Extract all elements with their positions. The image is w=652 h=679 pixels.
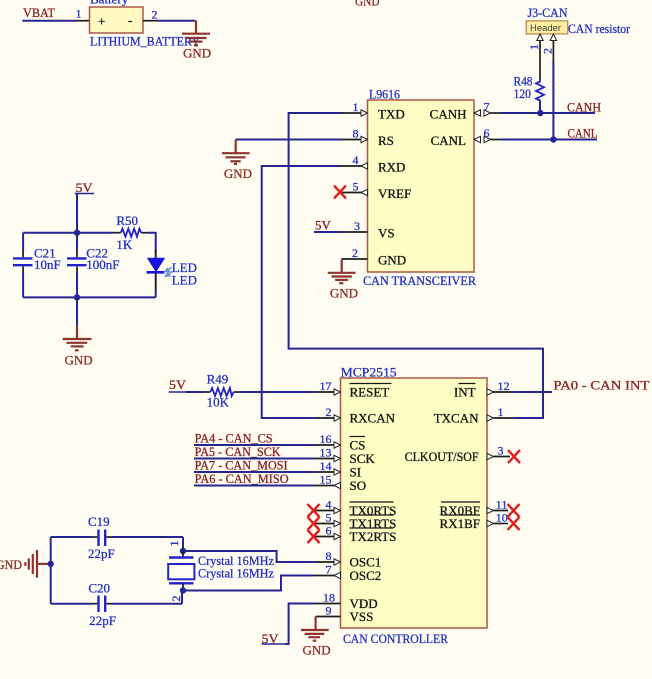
svg-text:GND: GND bbox=[330, 286, 358, 301]
wire RXD net: pin4 left, down to RXCAN bbox=[262, 166, 342, 418]
pin name SO bbox=[350, 478, 367, 493]
wire CAN_MOSI bbox=[194, 471, 314, 473]
pin 1 TXD stub bbox=[342, 110, 368, 116]
capacitor C21 (vertical) bbox=[13, 233, 33, 298]
ground symbol (battery) bbox=[182, 21, 210, 46]
wire C20 to crystal pin 2 bbox=[181, 591, 183, 604]
pin number 13 bbox=[320, 446, 332, 460]
pin 5 VREF stub bbox=[342, 189, 368, 195]
pin 6 TX2RTS stub with X bbox=[314, 533, 341, 539]
svg-text:TXCAN: TXCAN bbox=[434, 411, 479, 426]
junction bottom rail bbox=[74, 294, 80, 300]
svg-text:1: 1 bbox=[167, 541, 181, 547]
pin 3 CLKOUT/SOF stub with X bbox=[487, 453, 510, 459]
svg-text:PA0 - CAN INT: PA0 - CAN INT bbox=[553, 378, 649, 393]
wire RS to ground bbox=[236, 139, 342, 141]
pin number 7 (OSC2) bbox=[326, 563, 332, 577]
wire crystal pin1 to OSC1 bbox=[183, 551, 314, 562]
pin number 6 bbox=[326, 524, 332, 538]
junction crystal pin 1 bbox=[180, 548, 186, 554]
IC U? MCP2515 body bbox=[341, 378, 488, 628]
svg-text:GND: GND bbox=[355, 0, 380, 9]
junction 5V rail bbox=[74, 230, 80, 236]
comment CAN resistor bbox=[568, 21, 631, 36]
value 22pF (C20) bbox=[89, 613, 116, 628]
pin number 4 (RXD) bbox=[353, 153, 359, 167]
designator Battery (clipped at top) bbox=[90, 0, 129, 7]
wire bottom rail bbox=[23, 296, 156, 298]
wire 5V to VS pin bbox=[314, 231, 342, 233]
pin number 11 bbox=[496, 498, 508, 512]
pin number 6 (CANL) bbox=[484, 126, 490, 140]
svg-text:RS: RS bbox=[378, 133, 394, 148]
battery plus mark bbox=[98, 14, 105, 29]
pin 15 SO stub bbox=[314, 482, 341, 488]
pin name CS with overline bbox=[350, 437, 366, 453]
pin number 5 bbox=[326, 511, 332, 525]
pin name SCK bbox=[350, 451, 376, 466]
pin 1 of J3 (vertical) bbox=[539, 41, 541, 80]
svg-text:5V: 5V bbox=[315, 218, 332, 233]
no-connect X on VREF bbox=[334, 186, 346, 199]
pin name VS bbox=[378, 226, 395, 241]
connector J3 comment Header bbox=[530, 23, 561, 34]
pin number 3 (VS) bbox=[354, 219, 360, 233]
pin 2 RXCAN stub bbox=[314, 415, 341, 421]
junction crystal pin 2 bbox=[180, 587, 186, 593]
pin name RESET with overline bbox=[350, 384, 392, 400]
pin name RXD bbox=[378, 160, 405, 175]
pin 2 of J3 (vertical) bbox=[552, 41, 554, 63]
svg-text:Battery: Battery bbox=[90, 0, 129, 7]
wire top rail bbox=[23, 232, 113, 234]
pin name OSC2 bbox=[350, 568, 382, 583]
resistor R50 leads bbox=[113, 232, 148, 234]
power port 5V (R49) bbox=[169, 377, 187, 392]
svg-text:CAN CONTROLLER: CAN CONTROLLER bbox=[343, 631, 448, 646]
no-connect X on TX2RTS bbox=[308, 530, 320, 543]
designator R50 bbox=[116, 213, 138, 228]
pin number 4 bbox=[326, 498, 332, 512]
pin number 17 bbox=[320, 379, 332, 393]
svg-text:R50: R50 bbox=[116, 213, 138, 228]
pin 4 TX0RTS stub with X bbox=[314, 507, 341, 513]
svg-text:22pF: 22pF bbox=[88, 546, 115, 561]
value 120 bbox=[514, 86, 532, 101]
pin name RX0BF with overline bbox=[440, 502, 480, 518]
svg-text:18: 18 bbox=[323, 591, 335, 605]
svg-text:17: 17 bbox=[320, 379, 332, 393]
pin 7 OSC2 stub bbox=[314, 572, 341, 578]
pin 4 RXD stub bbox=[342, 163, 368, 169]
pin 17 RESET stub bbox=[314, 389, 341, 395]
svg-text:9: 9 bbox=[326, 604, 332, 618]
comment CAN TRANSCEIVER bbox=[363, 273, 476, 288]
svg-text:7: 7 bbox=[484, 100, 490, 114]
svg-text:RESET: RESET bbox=[350, 385, 390, 400]
svg-text:Crystal 16MHz: Crystal 16MHz bbox=[198, 566, 274, 581]
power port 5V (top left) bbox=[75, 180, 94, 195]
pin name GND bbox=[378, 253, 406, 268]
svg-text:1: 1 bbox=[498, 405, 504, 419]
svg-text:C20: C20 bbox=[88, 581, 110, 596]
pin number 2 (crystal, rotated) bbox=[169, 596, 183, 602]
svg-text:TX2RTS: TX2RTS bbox=[350, 529, 397, 544]
svg-text:11: 11 bbox=[496, 498, 508, 512]
op-amp/IC U? L9616 body bbox=[368, 100, 475, 272]
svg-text:CLKOUT/SOF: CLKOUT/SOF bbox=[405, 449, 479, 464]
svg-text:J3-CAN: J3-CAN bbox=[528, 5, 569, 20]
svg-text:10K: 10K bbox=[207, 395, 230, 410]
wire battery pin 2 to ground bbox=[158, 20, 196, 22]
svg-text:13: 13 bbox=[320, 446, 332, 460]
wire crystal gnd vertical bbox=[50, 537, 52, 604]
wire CAN_MISO bbox=[194, 485, 314, 487]
svg-text:16: 16 bbox=[320, 432, 332, 446]
svg-text:6: 6 bbox=[326, 524, 332, 538]
value 100nF bbox=[86, 257, 119, 272]
wire C19 to crystal pin 1 bbox=[182, 537, 184, 551]
power port 5V (VDD) bbox=[261, 631, 285, 646]
pin number 2 (RXCAN) bbox=[326, 405, 332, 419]
wire CANL bbox=[500, 139, 597, 141]
pin number 8 (OSC1) bbox=[326, 549, 332, 563]
wire crystal pin2 to OSC2 bbox=[183, 576, 314, 591]
pin 9 VSS stub bbox=[316, 616, 341, 618]
pin number 2 of J3 (rotated) bbox=[541, 48, 555, 54]
pin 2 of battery bbox=[143, 20, 158, 22]
svg-text:MCP2515: MCP2515 bbox=[341, 365, 397, 380]
svg-text:15: 15 bbox=[320, 473, 332, 487]
svg-text:8: 8 bbox=[353, 127, 359, 141]
pin 8 OSC1 stub bbox=[314, 559, 341, 565]
no-connect X on RX1BF bbox=[508, 517, 520, 530]
svg-text:12: 12 bbox=[498, 379, 510, 393]
value 1K bbox=[116, 237, 132, 252]
svg-text:GND: GND bbox=[183, 45, 211, 60]
pin 6 CANL stub (bidirectional) bbox=[474, 136, 500, 142]
svg-text:VREF: VREF bbox=[378, 186, 411, 201]
capacitor C22 (vertical) bbox=[67, 233, 87, 298]
pin 11 RX0BF stub with X bbox=[487, 507, 508, 513]
crystal Y? 16MHz bbox=[168, 551, 194, 591]
svg-text:GND: GND bbox=[65, 353, 93, 368]
ground label GND (battery) bbox=[183, 45, 211, 60]
pin number 18 bbox=[323, 591, 335, 605]
pin number 12 bbox=[498, 379, 510, 393]
svg-text:VSS: VSS bbox=[350, 609, 374, 624]
svg-text:3: 3 bbox=[354, 219, 360, 233]
designator L9616 bbox=[369, 87, 400, 102]
svg-text:GND: GND bbox=[224, 166, 252, 181]
svg-text:TXD: TXD bbox=[378, 107, 405, 122]
wire 5V up to VDD bbox=[285, 604, 314, 645]
pin name TXD bbox=[378, 107, 405, 122]
net label PA4 - CAN_CS bbox=[195, 431, 273, 446]
no-connect X on TX1RTS bbox=[308, 517, 320, 530]
pin number 9 bbox=[326, 604, 332, 618]
pin number 16 bbox=[320, 432, 332, 446]
comment Crystal 16MHz (2) bbox=[198, 566, 274, 581]
svg-text:INT: INT bbox=[454, 385, 476, 400]
capacitor C20 bbox=[51, 596, 182, 613]
svg-text:2: 2 bbox=[152, 8, 158, 22]
ground label GND (crystal, clipped left) bbox=[0, 557, 22, 572]
pin name OSC1 bbox=[350, 555, 382, 570]
ground symbol (RS) bbox=[222, 140, 250, 164]
svg-text:5V: 5V bbox=[169, 377, 187, 392]
junction on CANH bbox=[537, 110, 543, 116]
svg-text:CANL: CANL bbox=[568, 126, 598, 141]
ground label GND (VSS) bbox=[303, 643, 331, 658]
wire R48 to CANH junction bbox=[539, 102, 541, 113]
svg-text:4: 4 bbox=[353, 153, 359, 167]
svg-text:GND: GND bbox=[378, 253, 406, 268]
svg-text:CAN TRANSCEIVER: CAN TRANSCEIVER bbox=[363, 273, 476, 288]
junction crystal gnd bbox=[48, 561, 54, 567]
pin number 1 (TXCAN) bbox=[498, 405, 504, 419]
net label CANH bbox=[567, 100, 601, 115]
pin number 5 (VREF) bbox=[353, 180, 359, 194]
value 22pF (C19) bbox=[88, 546, 115, 561]
wire CANH bbox=[500, 112, 595, 114]
pin number 1 (battery) bbox=[76, 7, 82, 21]
resistor R50 bbox=[121, 229, 141, 237]
wire rail down to ground bbox=[76, 297, 78, 325]
pin name INT with overline bbox=[454, 384, 476, 400]
pin 13 SCK stub bbox=[314, 455, 341, 461]
svg-text:100nF: 100nF bbox=[86, 257, 119, 272]
svg-text:5: 5 bbox=[353, 180, 359, 194]
svg-text:CANH: CANH bbox=[430, 107, 467, 122]
comment LITHIUM_BATTERY bbox=[90, 34, 201, 49]
svg-text:C19: C19 bbox=[88, 514, 110, 529]
pin name RXCAN bbox=[350, 411, 396, 426]
svg-text:SO: SO bbox=[350, 478, 367, 493]
pin name TX2RTS with overline bbox=[350, 528, 397, 544]
pin name CLKOUT/SOF bbox=[405, 449, 479, 464]
pin 16 CS stub bbox=[314, 442, 341, 448]
comment LED bbox=[172, 273, 197, 288]
designator C20 bbox=[88, 581, 110, 596]
pin 12 INT stub bbox=[487, 389, 513, 395]
svg-text:2: 2 bbox=[326, 405, 332, 419]
net label CANL bbox=[568, 126, 598, 141]
svg-text:GND: GND bbox=[0, 557, 22, 572]
pin name TXCAN bbox=[434, 411, 479, 426]
pin name CANH bbox=[430, 107, 467, 122]
svg-text:RX1BF: RX1BF bbox=[440, 516, 480, 531]
pin 8 RS stub bbox=[342, 136, 368, 142]
diode LED D? bbox=[147, 250, 165, 297]
connector J3 body bbox=[526, 21, 567, 34]
pin name CANL bbox=[431, 133, 466, 148]
pin name RS bbox=[378, 133, 394, 148]
svg-text:2: 2 bbox=[169, 596, 183, 602]
pin number 2 (battery) bbox=[152, 8, 158, 22]
pin 5 TX1RTS stub with X bbox=[314, 520, 341, 526]
pin number 14 bbox=[320, 459, 332, 473]
value 10K bbox=[207, 395, 230, 410]
wire CAN_CS bbox=[194, 444, 314, 446]
wire VBAT to battery pin 1 bbox=[22, 20, 76, 22]
pin 14 SI stub bbox=[314, 469, 341, 475]
designator C21 bbox=[34, 246, 56, 261]
pin name TX1RTS with overline bbox=[350, 515, 397, 531]
svg-text:8: 8 bbox=[326, 549, 332, 563]
pin 1 TXCAN stub bbox=[487, 415, 513, 421]
net label VBAT bbox=[23, 5, 55, 20]
svg-text:VS: VS bbox=[378, 226, 395, 241]
svg-text:10nF: 10nF bbox=[34, 257, 61, 272]
LED light arrows bbox=[165, 267, 173, 276]
battery B? body bbox=[90, 7, 144, 33]
resistor R49 leads bbox=[203, 391, 241, 393]
svg-text:1: 1 bbox=[76, 7, 82, 21]
svg-text:1: 1 bbox=[353, 100, 359, 114]
pin number 8 (RS) bbox=[353, 127, 359, 141]
svg-text:Header: Header bbox=[530, 23, 561, 34]
comment CAN CONTROLLER bbox=[343, 631, 448, 646]
pin name VSS bbox=[350, 609, 374, 624]
svg-text:3: 3 bbox=[498, 444, 504, 458]
pin number 1 (TXD) bbox=[353, 100, 359, 114]
pin 7 CANH stub (bidirectional) bbox=[474, 110, 500, 116]
pin number 1 (crystal, rotated) bbox=[167, 541, 181, 547]
svg-text:CAN resistor: CAN resistor bbox=[568, 21, 631, 36]
svg-text:PA6 - CAN_MISO: PA6 - CAN_MISO bbox=[195, 471, 289, 486]
ground label GND (top, clipped) bbox=[355, 0, 380, 9]
pin number 1 of J3 (rotated) bbox=[527, 44, 541, 50]
pin name VREF bbox=[378, 186, 411, 201]
svg-text:CANL: CANL bbox=[431, 133, 466, 148]
svg-text:6: 6 bbox=[484, 126, 490, 140]
svg-text:22pF: 22pF bbox=[89, 613, 116, 628]
ground label GND (RS) bbox=[224, 166, 252, 181]
ground symbol (crystal, rotated left) bbox=[25, 550, 50, 578]
designator MCP2515 bbox=[341, 365, 397, 380]
no-connect X on RX0BF bbox=[508, 504, 520, 517]
svg-text:1: 1 bbox=[527, 44, 541, 50]
svg-text:+: + bbox=[98, 14, 105, 29]
wire 5V down to rail bbox=[76, 194, 78, 233]
svg-text:-: - bbox=[128, 13, 132, 28]
designator LED bbox=[172, 260, 197, 275]
pin name SI bbox=[350, 465, 362, 480]
designator R48 bbox=[514, 74, 533, 89]
resistor R48 bbox=[536, 79, 544, 102]
wire J3 pin 2 down to CANL bbox=[552, 62, 554, 140]
svg-text:CANH: CANH bbox=[567, 100, 601, 115]
svg-text:2: 2 bbox=[352, 246, 358, 260]
comment Crystal 16MHz (1) bbox=[198, 553, 274, 568]
designator C19 bbox=[88, 514, 110, 529]
pin 2 GND stub bbox=[342, 258, 368, 260]
pin name TX0RTS with overline bbox=[350, 502, 397, 518]
svg-text:GND: GND bbox=[303, 643, 331, 658]
battery minus mark bbox=[128, 13, 132, 28]
svg-text:RXD: RXD bbox=[378, 160, 405, 175]
svg-text:4: 4 bbox=[326, 498, 332, 512]
wire INT to label bbox=[513, 391, 552, 393]
svg-text:10: 10 bbox=[496, 511, 508, 525]
power port 5V (VS) bbox=[315, 218, 332, 233]
pin number 2 (GND pin) bbox=[352, 246, 358, 260]
ground label GND (L9616) bbox=[330, 286, 358, 301]
wire 5V to R49 bbox=[186, 391, 203, 393]
svg-text:5: 5 bbox=[326, 511, 332, 525]
pin 1 of battery bbox=[76, 20, 90, 22]
pin arrowhead J3 pin 1 bbox=[537, 34, 543, 41]
wire R50 to LED corner bbox=[148, 233, 156, 252]
value 10nF bbox=[34, 257, 61, 272]
svg-text:RXCAN: RXCAN bbox=[350, 411, 396, 426]
ground label GND (LED rail) bbox=[65, 353, 93, 368]
capacitor C19 bbox=[51, 530, 183, 547]
ground symbol (VSS) bbox=[301, 617, 329, 641]
wire R49 to RESET pin bbox=[241, 391, 314, 393]
svg-text:VBAT: VBAT bbox=[23, 5, 55, 20]
net label PA5 - CAN_SCK bbox=[195, 444, 282, 459]
svg-text:120: 120 bbox=[514, 86, 532, 101]
no-connect X on TX0RTS bbox=[308, 504, 320, 517]
designator J3-CAN bbox=[528, 5, 569, 20]
net label PA0 - CAN INT bbox=[553, 378, 649, 393]
pin 10 RX1BF stub with X bbox=[487, 520, 508, 526]
pin 18 VDD stub bbox=[314, 603, 341, 605]
pin name RX1BF with overline bbox=[440, 515, 480, 531]
wire TXD net: pin1 left, down, right, down to TXCAN bbox=[289, 113, 543, 418]
pin name VDD bbox=[350, 596, 378, 611]
pin arrowhead J3 pin 2 bbox=[550, 34, 556, 41]
svg-text:R49: R49 bbox=[207, 372, 229, 387]
wire CAN_SCK bbox=[194, 458, 314, 460]
ground symbol (L9616 pin 2) bbox=[328, 259, 356, 283]
svg-text:14: 14 bbox=[320, 459, 332, 473]
resistor R49 bbox=[210, 388, 233, 396]
svg-text:7: 7 bbox=[326, 563, 332, 577]
svg-text:1K: 1K bbox=[116, 237, 132, 252]
svg-text:LED: LED bbox=[172, 273, 197, 288]
svg-text:L9616: L9616 bbox=[369, 87, 400, 102]
svg-text:2: 2 bbox=[541, 48, 555, 54]
pin number 15 bbox=[320, 473, 332, 487]
net label PA7 - CAN_MOSI bbox=[195, 458, 288, 473]
pin number 7 (CANH) bbox=[484, 100, 490, 114]
pin 3 VS stub bbox=[342, 231, 368, 233]
svg-text:OSC2: OSC2 bbox=[350, 568, 382, 583]
ground symbol (LED rail) bbox=[63, 326, 92, 351]
pin number 10 bbox=[496, 511, 508, 525]
junction on CANL bbox=[550, 136, 556, 142]
designator R49 bbox=[207, 372, 229, 387]
no-connect X on CLKOUT/SOF bbox=[508, 450, 520, 463]
net label PA6 - CAN_MISO bbox=[195, 471, 289, 486]
pin number 3 (CLKOUT) bbox=[498, 444, 504, 458]
designator C22 bbox=[86, 246, 108, 261]
